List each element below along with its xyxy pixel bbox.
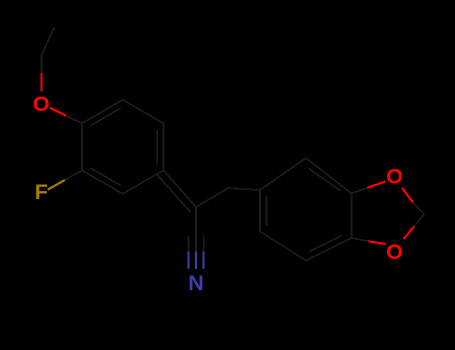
bond CH to right ring LT <box>229 188 261 190</box>
nitrile center line blue part <box>195 253 197 269</box>
right ring inner double LT-LB <box>266 196 268 225</box>
left ring inner double C4-C5 <box>91 109 120 126</box>
bond O1 to CH2 red half <box>403 189 414 203</box>
bond CH2 to O2 dark half <box>414 214 425 227</box>
svg-text:O: O <box>33 92 50 116</box>
right ring edge Bo-LB <box>260 232 306 261</box>
vinyl double bond C1=Cv parallel <box>158 175 191 212</box>
nitrile outer line right dark <box>203 237 205 253</box>
left ring edge C2-C3 <box>82 170 123 194</box>
right ring edge LB-LT <box>259 190 261 232</box>
right ring inner double Bo-Cbot <box>310 236 342 252</box>
svg-text:O: O <box>386 240 403 264</box>
nitrile center line dark part <box>195 207 197 253</box>
right ring edge Ctop-Cbot <box>351 194 353 239</box>
bond O1 to CH2 dark half <box>413 203 424 215</box>
bond O to C4 dark half <box>66 116 82 123</box>
bond CH2 to O2 red half <box>404 227 414 239</box>
bond F to C3 dark half <box>65 170 82 180</box>
left ring inner double C6-C1 <box>156 130 158 164</box>
svg-text:F: F <box>35 180 48 204</box>
bond O2 to Cbot red half <box>368 241 385 244</box>
right ring inner double T-Ctop <box>310 169 341 191</box>
nitrile outer line right blue <box>203 253 205 269</box>
bond O2 to Cbot dark half <box>352 238 369 241</box>
ethoxy CH3 stub <box>42 28 55 55</box>
left ring edge C1-C2 <box>123 170 164 194</box>
left ring edge C6-C1 <box>162 123 164 170</box>
left ring edge C3-C4 <box>81 123 83 170</box>
bond Cv-CH <box>196 188 229 207</box>
ethoxy CH2-O bond lower half (red) <box>40 74 42 91</box>
nitrile outer line left blue <box>187 253 189 269</box>
bond Ctop to O1 red half <box>368 182 385 188</box>
right ring edge LT-T <box>260 158 306 190</box>
svg-text:N: N <box>188 271 204 295</box>
nitrile outer line left dark <box>187 237 189 253</box>
left ring inner double C2-C3 <box>91 168 120 185</box>
bond F to C3 olive half <box>49 180 66 189</box>
vinyl double bond C1=Cv main <box>163 170 196 207</box>
svg-text:O: O <box>386 165 403 189</box>
bond O to C4 red half <box>51 108 67 116</box>
bond Ctop to O1 dark half <box>352 188 369 194</box>
ethoxy CH2-O bond upper half <box>41 55 43 74</box>
right ring edge T-Ctop <box>306 158 352 194</box>
right ring edge Cbot-Bo <box>306 238 352 261</box>
left ring edge C4-C5 <box>82 100 123 124</box>
left ring edge C5-C6 <box>123 100 164 124</box>
